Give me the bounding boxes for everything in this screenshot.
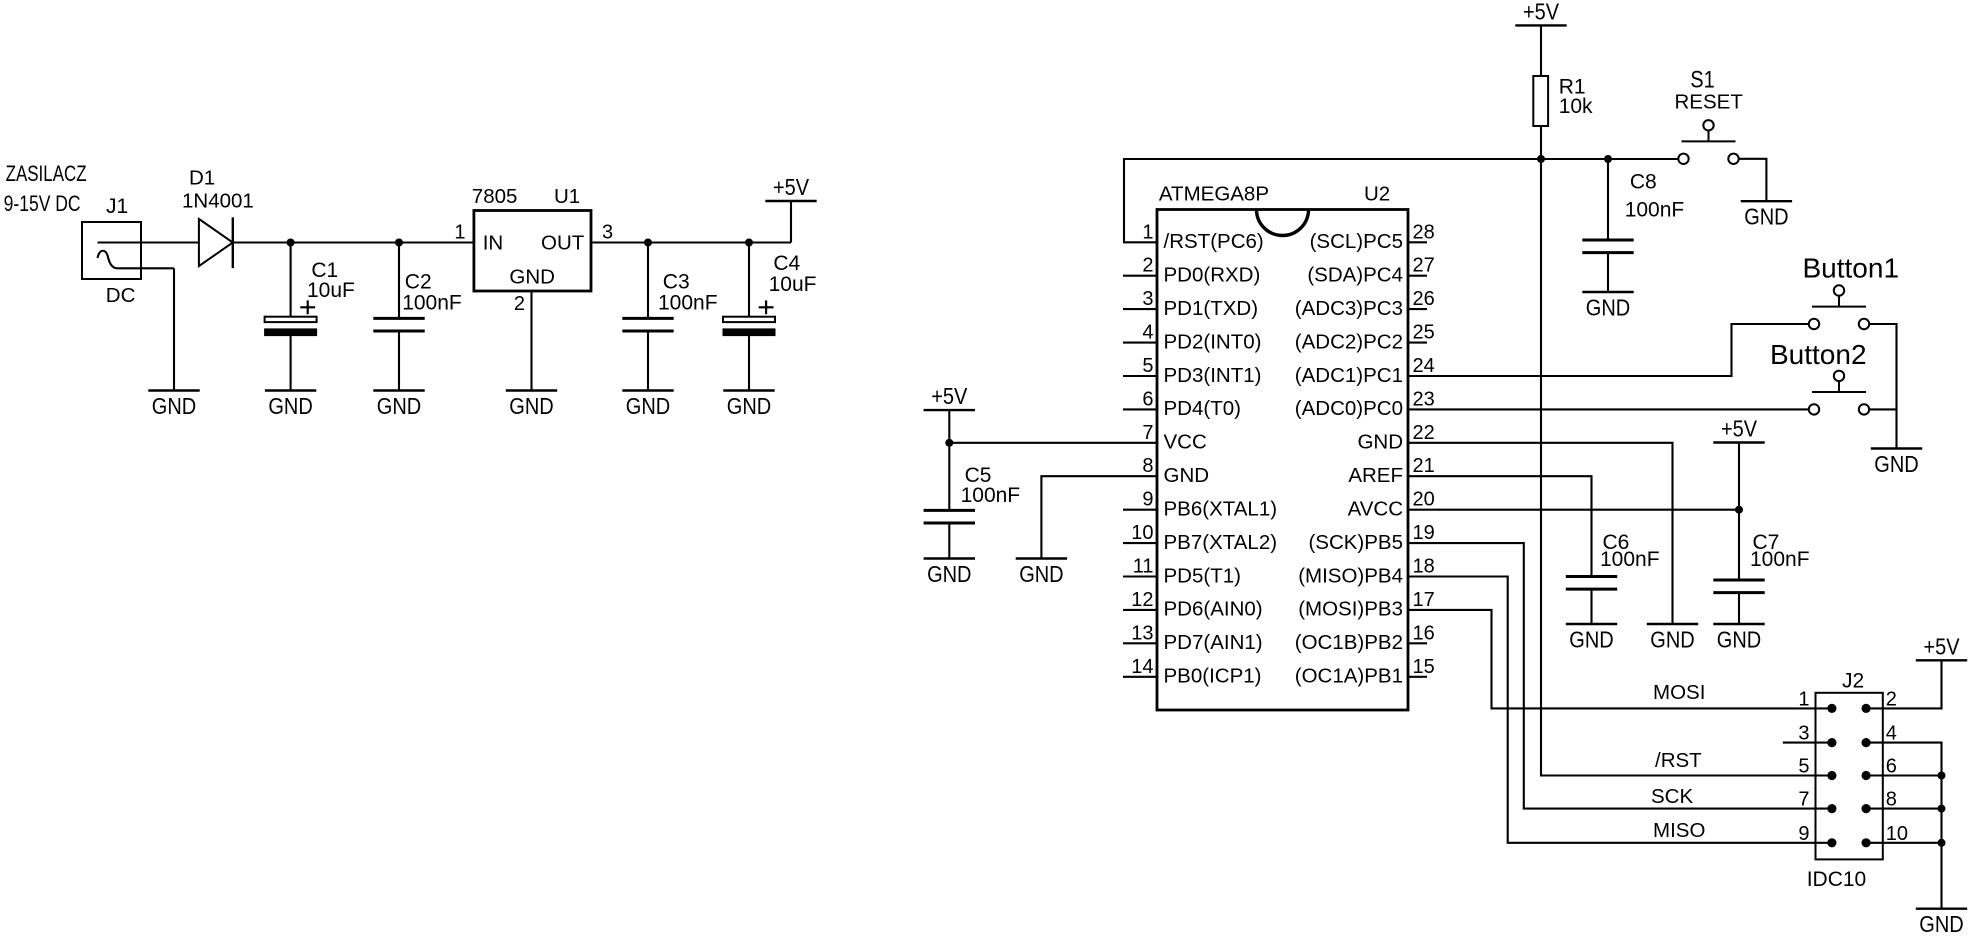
- svg-text:100nF: 100nF: [1600, 548, 1660, 571]
- svg-text:PB0(ICP1): PB0(ICP1): [1164, 665, 1262, 688]
- ground symbol for S1: [1741, 200, 1792, 202]
- svg-text:GND: GND: [927, 561, 971, 587]
- svg-text:GND: GND: [727, 393, 771, 419]
- capacitor C5 plates: [924, 509, 975, 512]
- svg-text:7805: 7805: [472, 185, 518, 208]
- svg-text:GND: GND: [1164, 464, 1210, 487]
- J2 pin 10 dot: [1862, 838, 1871, 847]
- wire C8 top: [1607, 159, 1609, 240]
- wire U2 pin8 GND to ground: [1041, 476, 1157, 558]
- svg-text:10: 10: [1131, 522, 1153, 544]
- svg-text:AREF: AREF: [1348, 464, 1403, 487]
- svg-text:VCC: VCC: [1164, 431, 1207, 454]
- svg-text:100nF: 100nF: [402, 291, 462, 314]
- ground symbol for U2 pin22: [1647, 623, 1698, 625]
- svg-text:22: 22: [1413, 422, 1435, 444]
- svg-text:3: 3: [1798, 723, 1809, 745]
- svg-text:GND: GND: [509, 393, 553, 419]
- ground symbol for Button1/Button2: [1871, 447, 1922, 449]
- junction node J2 pin8: [1938, 805, 1946, 813]
- diode D1 cathode bar: [232, 217, 234, 268]
- wire AVCC node down to C7: [1738, 510, 1740, 580]
- svg-text:PD3(INT1): PD3(INT1): [1164, 364, 1262, 387]
- J2 pin 1 dot: [1827, 704, 1836, 713]
- U2 pin 6 stub wire: [1123, 408, 1157, 410]
- svg-text:7: 7: [1142, 422, 1153, 444]
- svg-text:9: 9: [1798, 823, 1809, 845]
- svg-text:5: 5: [1142, 355, 1153, 377]
- svg-text:3: 3: [602, 222, 613, 244]
- wire D1 cathode to U1 IN (through nodes): [233, 241, 474, 243]
- capacitor C3 plates: [622, 317, 673, 320]
- ground symbol for C6: [1566, 623, 1617, 625]
- +5V power symbol at J2 pin2: [1916, 659, 1967, 661]
- wire MISO from U2 pin18 to J2 pin9: [1408, 577, 1832, 843]
- C4 plus polarity mark: [759, 306, 774, 308]
- diode D1 1N4001 triangle: [199, 219, 233, 266]
- svg-text:1: 1: [1798, 688, 1809, 710]
- svg-text:AVCC: AVCC: [1348, 498, 1404, 521]
- svg-text:PD6(AIN0): PD6(AIN0): [1164, 598, 1263, 621]
- svg-text:/RST(PC6): /RST(PC6): [1164, 230, 1264, 253]
- wire +5V to J2 pin2: [1866, 660, 1941, 708]
- svg-text:GND: GND: [1357, 431, 1403, 454]
- svg-text:13: 13: [1131, 622, 1153, 644]
- wire U2 pin24 PC1 to Button1: [1408, 324, 1809, 376]
- svg-text:20: 20: [1413, 489, 1435, 511]
- svg-text:10uF: 10uF: [307, 279, 355, 302]
- pushbutton switch Button2: [1809, 404, 1819, 414]
- svg-text:21: 21: [1413, 455, 1435, 477]
- wire VCC node down to C5: [948, 443, 950, 511]
- svg-text:ZASILACZ: ZASILACZ: [6, 161, 87, 186]
- svg-text:5: 5: [1798, 756, 1809, 778]
- C1 plus polarity mark: [300, 306, 315, 308]
- pushbutton switch S1: [1678, 154, 1688, 164]
- J2 pin3 stub wire: [1783, 742, 1832, 744]
- ground symbol for C8: [1582, 291, 1633, 293]
- svg-text:10uF: 10uF: [769, 273, 817, 296]
- svg-text:PD5(T1): PD5(T1): [1164, 564, 1241, 587]
- +5V power symbol above R1: [1515, 24, 1566, 26]
- svg-text:GND: GND: [1744, 204, 1788, 230]
- svg-text:Button2: Button2: [1770, 339, 1867, 370]
- junction node at C1: [287, 239, 295, 247]
- J2 pin 4 dot: [1862, 738, 1871, 747]
- wire C2 bottom to ground: [398, 331, 400, 391]
- J1 sleeve contact squiggle: [98, 251, 175, 269]
- svg-text:(SCK)PB5: (SCK)PB5: [1308, 531, 1403, 554]
- svg-text:3: 3: [1142, 288, 1153, 310]
- U2 pin 12 stub wire: [1123, 609, 1157, 611]
- svg-text:PB7(XTAL2): PB7(XTAL2): [1164, 531, 1278, 554]
- J2 pin 2 dot: [1862, 704, 1871, 713]
- svg-text:1N4001: 1N4001: [182, 189, 254, 212]
- svg-text:100nF: 100nF: [1750, 548, 1810, 571]
- svg-text:U1: U1: [554, 185, 580, 208]
- J2 pin 8 dot: [1862, 804, 1871, 813]
- svg-text:100nF: 100nF: [658, 291, 718, 314]
- U2 pin 15 stub wire: [1408, 676, 1427, 678]
- wire node to C3 top: [647, 243, 649, 319]
- ground symbol for C5: [924, 557, 975, 559]
- wire node to C4 top: [748, 243, 750, 317]
- ground symbol for C2: [373, 389, 424, 391]
- capacitor C4 electrolytic plates: [723, 317, 775, 322]
- svg-text:GND: GND: [1874, 451, 1918, 477]
- svg-text:GND: GND: [1019, 561, 1063, 587]
- ground symbol for J2: [1916, 908, 1967, 910]
- capacitor C6 plates: [1566, 575, 1617, 578]
- junction node J2 pin10: [1938, 839, 1946, 847]
- svg-text:D1: D1: [189, 167, 215, 190]
- regulator U1 7805 body: [474, 211, 591, 292]
- svg-text:C8: C8: [1630, 171, 1657, 194]
- ground symbol for C4: [723, 389, 774, 391]
- svg-text:IN: IN: [483, 231, 504, 254]
- svg-text:23: 23: [1413, 388, 1435, 410]
- svg-text:(MOSI)PB3: (MOSI)PB3: [1298, 598, 1403, 621]
- svg-text:GND: GND: [1650, 627, 1694, 653]
- wire R1 top to +5V: [1540, 25, 1542, 76]
- svg-text:2: 2: [1142, 255, 1153, 277]
- svg-text:14: 14: [1131, 656, 1153, 678]
- U2 pin 16 stub wire: [1408, 642, 1427, 644]
- pushbutton switch Button1: [1809, 319, 1819, 329]
- wire /RST from reset rail to J2 pin5: [1541, 159, 1832, 776]
- svg-text:MOSI: MOSI: [1653, 681, 1705, 704]
- wire node to C1 top: [290, 243, 292, 317]
- wire MOSI from U2 pin17 to J2 pin1: [1408, 610, 1832, 709]
- svg-text:28: 28: [1413, 221, 1435, 243]
- wire C1 bottom to ground: [290, 336, 292, 391]
- J2 pin 7 dot: [1827, 804, 1836, 813]
- svg-text:24: 24: [1413, 355, 1435, 377]
- wire U1 GND pin to ground: [530, 291, 532, 391]
- svg-text:J2: J2: [1842, 670, 1864, 693]
- ground symbol for C3: [622, 389, 673, 391]
- ground symbol for U1: [506, 389, 557, 391]
- capacitor C2 plates: [373, 317, 424, 320]
- wire C8 bottom to ground: [1607, 253, 1609, 292]
- svg-text:+5V: +5V: [1923, 633, 1960, 659]
- junction node reset rail at C8: [1604, 155, 1612, 163]
- svg-text:ATMEGA8P: ATMEGA8P: [1159, 183, 1269, 206]
- J2 pin 5 dot: [1827, 771, 1836, 780]
- svg-text:9-15V DC: 9-15V DC: [4, 191, 81, 216]
- ground symbol for C1: [265, 389, 316, 391]
- svg-text:SCK: SCK: [1651, 785, 1693, 808]
- svg-text:J1: J1: [106, 195, 128, 218]
- junction node J2 pin6: [1938, 772, 1946, 780]
- svg-text:PD7(AIN1): PD7(AIN1): [1164, 631, 1263, 654]
- U2 pin 27 stub wire: [1408, 275, 1427, 277]
- svg-text:DC: DC: [106, 284, 136, 307]
- U2 pin 11 stub wire: [1123, 575, 1157, 577]
- ground symbol for J1: [148, 389, 199, 391]
- svg-text:+5V: +5V: [1721, 416, 1758, 442]
- svg-text:8: 8: [1886, 789, 1897, 811]
- wire C6 bottom to ground: [1590, 589, 1592, 624]
- svg-text:100nF: 100nF: [961, 484, 1021, 507]
- U2 pin 26 stub wire: [1408, 308, 1427, 310]
- wire up to +5V symbol: [790, 201, 792, 243]
- ground symbol for U2 pin8: [1016, 557, 1067, 559]
- wire C4 bottom to ground: [748, 336, 750, 391]
- junction node at C2: [395, 239, 403, 247]
- U2 pin 2 stub wire: [1123, 275, 1157, 277]
- svg-text:GND: GND: [509, 265, 555, 288]
- svg-text:GND: GND: [377, 393, 421, 419]
- svg-text:MISO: MISO: [1653, 819, 1705, 842]
- svg-text:26: 26: [1413, 288, 1435, 310]
- U2 pin 3 stub wire: [1123, 308, 1157, 310]
- wire node to C2 top: [398, 243, 400, 319]
- +5V to VCC junction wire: [948, 410, 950, 443]
- +5V power symbol at VCC: [924, 409, 975, 411]
- svg-text:19: 19: [1413, 522, 1435, 544]
- svg-text:PD2(INT0): PD2(INT0): [1164, 330, 1262, 353]
- svg-text:2: 2: [1886, 688, 1897, 710]
- svg-text:(ADC2)PC2: (ADC2)PC2: [1295, 330, 1403, 353]
- svg-text:/RST: /RST: [1655, 749, 1702, 772]
- connector J2 body: [1816, 693, 1883, 860]
- IC U2 ATMEGA8P body: [1157, 210, 1408, 711]
- svg-text:GND: GND: [1569, 627, 1613, 653]
- J2 pin6 stub to ground rail: [1866, 774, 1941, 776]
- connector J1 DC jack body: [82, 222, 141, 279]
- svg-text:RESET: RESET: [1675, 90, 1744, 113]
- wire J2 pin4 to ground rail: [1866, 743, 1941, 909]
- junction node reset rail at R1: [1537, 155, 1545, 163]
- svg-text:(ADC0)PC0: (ADC0)PC0: [1295, 397, 1403, 420]
- capacitor C8 plates: [1582, 239, 1633, 242]
- U2 pin 5 stub wire: [1123, 375, 1157, 377]
- svg-text:+5V: +5V: [1523, 0, 1560, 24]
- svg-text:18: 18: [1413, 556, 1435, 578]
- svg-text:27: 27: [1413, 255, 1435, 277]
- svg-text:C4: C4: [773, 252, 800, 275]
- ground symbol for C7: [1713, 623, 1764, 625]
- svg-text:+5V: +5V: [931, 383, 968, 409]
- U2 pin 9 stub wire: [1123, 509, 1157, 511]
- svg-text:(SDA)PC4: (SDA)PC4: [1307, 264, 1403, 287]
- wire S1 right contact to ground: [1739, 159, 1767, 201]
- junction node at C3: [644, 239, 652, 247]
- wire U2 pin22 GND to ground: [1408, 443, 1673, 624]
- svg-text:(ADC1)PC1: (ADC1)PC1: [1295, 364, 1403, 387]
- resistor R1 body: [1533, 76, 1548, 126]
- junction node AVCC: [1735, 506, 1743, 514]
- svg-text:PD1(TXD): PD1(TXD): [1164, 297, 1259, 320]
- wire J1 tip contact to diode D1 anode: [98, 241, 199, 243]
- U2 pin 25 stub wire: [1408, 342, 1427, 344]
- svg-text:4: 4: [1142, 322, 1153, 344]
- svg-text:100nF: 100nF: [1625, 198, 1685, 221]
- capacitor C7 plates: [1713, 579, 1764, 582]
- svg-text:OUT: OUT: [541, 231, 585, 254]
- svg-text:6: 6: [1142, 388, 1153, 410]
- +5V power symbol at U1 output: [765, 200, 816, 202]
- U2 pin 28 stub wire: [1408, 241, 1427, 243]
- svg-text:GND: GND: [152, 393, 196, 419]
- svg-text:7: 7: [1798, 789, 1809, 811]
- wire SCK from U2 pin19 to J2 pin7: [1408, 543, 1832, 809]
- svg-text:1: 1: [1142, 221, 1153, 243]
- junction node VCC: [945, 439, 953, 447]
- svg-text:9: 9: [1142, 489, 1153, 511]
- wire VCC node to U2 pin7: [949, 442, 1157, 444]
- svg-text:+5V: +5V: [773, 174, 810, 200]
- svg-text:17: 17: [1413, 589, 1435, 611]
- svg-text:GND: GND: [1919, 911, 1963, 936]
- svg-text:PB6(XTAL1): PB6(XTAL1): [1164, 498, 1278, 521]
- svg-text:PD0(RXD): PD0(RXD): [1164, 264, 1261, 287]
- wire U2 pin23 PC0 to Button2: [1408, 408, 1809, 410]
- +5V power symbol at AVCC: [1713, 441, 1764, 443]
- wire Button1 right contact down to ground: [1869, 324, 1896, 449]
- wire C7 bottom to ground: [1738, 593, 1740, 624]
- svg-text:GND: GND: [268, 393, 312, 419]
- svg-text:1: 1: [454, 222, 465, 244]
- svg-text:12: 12: [1131, 589, 1153, 611]
- junction node at C4: [745, 239, 753, 247]
- svg-text:U2: U2: [1364, 183, 1390, 206]
- wire Button2 right contact to ground line: [1869, 408, 1896, 410]
- IC U2 notch: [1257, 210, 1309, 236]
- svg-text:15: 15: [1413, 656, 1435, 678]
- U2 pin 10 stub wire: [1123, 542, 1157, 544]
- svg-text:(OC1A)PB1: (OC1A)PB1: [1295, 665, 1403, 688]
- J2 pin10 stub to ground rail: [1866, 842, 1941, 844]
- svg-text:8: 8: [1142, 455, 1153, 477]
- svg-text:C2: C2: [405, 270, 432, 293]
- svg-text:GND: GND: [626, 393, 670, 419]
- svg-text:C3: C3: [663, 270, 690, 293]
- U2 pin 14 stub wire: [1123, 676, 1157, 678]
- svg-text:(OC1B)PB2: (OC1B)PB2: [1295, 631, 1403, 654]
- wire R1 bottom: [1540, 126, 1542, 159]
- J2 pin 3 dot: [1827, 738, 1836, 747]
- wire U2 pin21 AREF to C6: [1408, 476, 1592, 576]
- svg-text:GND: GND: [1717, 627, 1761, 653]
- wire C5 bottom to ground: [948, 523, 950, 559]
- svg-text:Button1: Button1: [1803, 253, 1900, 284]
- svg-text:6: 6: [1886, 756, 1897, 778]
- wire C3 bottom to ground: [647, 331, 649, 391]
- wire AVCC node up to +5V: [1738, 443, 1740, 510]
- svg-text:25: 25: [1413, 322, 1435, 344]
- svg-text:10k: 10k: [1559, 95, 1593, 118]
- J2 pin 6 dot: [1862, 771, 1871, 780]
- svg-text:16: 16: [1413, 622, 1435, 644]
- svg-text:10: 10: [1886, 823, 1908, 845]
- J2 pin 9 dot: [1827, 838, 1836, 847]
- svg-text:4: 4: [1886, 723, 1897, 745]
- svg-text:(SCL)PC5: (SCL)PC5: [1310, 230, 1403, 253]
- J2 pin8 stub to ground rail: [1866, 808, 1941, 810]
- capacitor C1 electrolytic plates: [265, 317, 317, 322]
- U2 pin 4 stub wire: [1123, 342, 1157, 344]
- svg-text:PD4(T0): PD4(T0): [1164, 397, 1241, 420]
- svg-text:GND: GND: [1586, 295, 1630, 321]
- wire U2 pin20 AVCC to node: [1408, 509, 1739, 511]
- svg-text:2: 2: [514, 293, 525, 315]
- U2 pin 13 stub wire: [1123, 642, 1157, 644]
- svg-text:(MISO)PB4: (MISO)PB4: [1298, 564, 1403, 587]
- wire U2 pin1 /RST up to reset rail: [1124, 159, 1678, 242]
- wire J1 sleeve to ground: [173, 268, 175, 390]
- svg-text:IDC10: IDC10: [1807, 868, 1867, 891]
- svg-text:(ADC3)PC3: (ADC3)PC3: [1295, 297, 1403, 320]
- wire U1 OUT to +5V corner: [591, 241, 791, 243]
- svg-text:11: 11: [1133, 556, 1154, 578]
